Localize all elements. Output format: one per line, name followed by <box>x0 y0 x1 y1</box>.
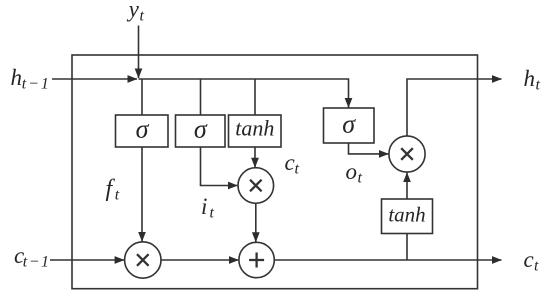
svg-text:tanh: tanh <box>388 203 425 227</box>
label f_t <box>106 176 120 204</box>
svg-text:h: h <box>11 65 23 90</box>
svg-text:t−1: t−1 <box>22 76 51 93</box>
wire sigma o elbow to multiply arrow <box>349 143 389 154</box>
svg-text:σ: σ <box>342 110 356 139</box>
svg-text:t: t <box>210 205 215 222</box>
svg-text:t−1: t−1 <box>23 254 51 271</box>
wire drop to sigma f <box>141 79 143 115</box>
wire multiply to plus arrow <box>255 203 257 242</box>
svg-text:tanh: tanh <box>235 116 274 141</box>
svg-text:c: c <box>285 150 295 175</box>
svg-text:i: i <box>201 194 207 219</box>
label i_t <box>201 194 215 222</box>
multiply node f*c <box>125 242 161 278</box>
label c_t inner <box>285 150 300 178</box>
label c_t-1 <box>14 243 51 271</box>
gate box sigma o <box>324 108 375 143</box>
svg-text:t: t <box>534 258 539 275</box>
svg-text:t: t <box>295 161 300 178</box>
svg-text:σ: σ <box>136 115 150 144</box>
label y_t <box>127 0 145 25</box>
wire h_t-1 input arrow <box>52 78 137 80</box>
label c_t output <box>524 247 540 275</box>
svg-text:σ: σ <box>194 115 208 144</box>
svg-text:c: c <box>524 247 534 272</box>
wire drop to sigma i <box>200 79 202 115</box>
wire tanh c up to multiply arrow <box>406 173 408 199</box>
wire c out arrow <box>274 259 501 261</box>
svg-text:y: y <box>127 0 140 22</box>
wire h out arrow <box>407 79 502 136</box>
label h_t output <box>524 66 541 94</box>
plus node c update <box>239 242 274 277</box>
gate box tanh g <box>229 115 282 147</box>
wire y_t input arrow <box>138 26 140 79</box>
label o_t <box>346 159 363 187</box>
wire sigma i elbow to multiply arrow <box>201 147 238 186</box>
label h_t-1 <box>11 65 51 93</box>
svg-text:o: o <box>346 159 358 184</box>
gate box sigma i <box>176 115 226 148</box>
svg-text:t: t <box>536 77 541 94</box>
wire h line across to o-gate arrow <box>139 79 349 108</box>
gate box sigma f <box>116 115 169 148</box>
wire tanh c down to c line junction <box>406 234 408 261</box>
gate box tanh c <box>382 199 433 234</box>
multiply node o*tanh <box>389 136 425 172</box>
wire multiply to plus horizontal arrow <box>161 259 239 261</box>
svg-text:t: t <box>358 170 363 187</box>
multiply node i*g <box>238 168 274 204</box>
svg-text:t: t <box>140 8 145 25</box>
wire drop to tanh g <box>254 79 256 115</box>
wire c_t-1 input arrow <box>50 259 124 261</box>
svg-text:h: h <box>524 66 536 91</box>
wire tanh g to multiply arrow <box>254 147 256 167</box>
svg-text:t: t <box>115 187 120 204</box>
wire sigma f to multiply arrow <box>141 147 143 241</box>
outer LSTM cell box <box>72 55 478 289</box>
